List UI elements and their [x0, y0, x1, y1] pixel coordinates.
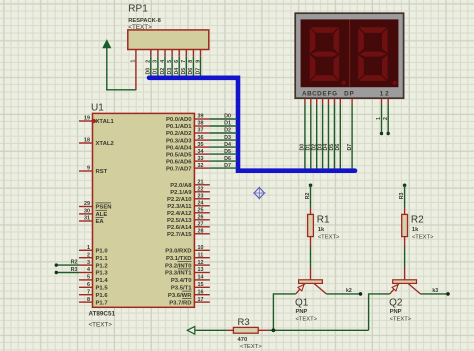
pin 2 (P1.1) stub	[79, 257, 93, 259]
svg-text:4: 4	[160, 60, 166, 63]
segment F (digit 2)	[358, 28, 364, 53]
net label D6 on RP1 pin 8	[188, 68, 194, 75]
svg-text:1k: 1k	[412, 227, 419, 233]
RP1 pin 8 stub	[192, 50, 194, 57]
pin number 37	[198, 128, 204, 134]
svg-text:2: 2	[146, 60, 152, 63]
dangling end dot (net 1)	[380, 132, 383, 135]
net label D5 (P0 wire)	[224, 149, 231, 155]
svg-text:15: 15	[198, 282, 204, 288]
pin 22 (P2.1/A9) stub	[194, 191, 209, 193]
svg-text:14: 14	[198, 275, 204, 281]
svg-text:P1.5: P1.5	[96, 286, 109, 292]
decimal point DP (digit 1)	[342, 81, 346, 85]
pin name P3.0/RXD	[165, 249, 191, 255]
wire P0.4 to bus (net D4)	[210, 146, 237, 148]
pin number 5 (RP1)	[167, 60, 173, 63]
pin 23 (P2.2/A10) stub	[194, 198, 209, 200]
svg-text:P3.5/T1: P3.5/T1	[171, 286, 192, 292]
wire net R2 to pin	[56, 264, 79, 266]
property label <TEXT> (R2)	[412, 234, 434, 240]
resistor R1 body	[308, 214, 314, 236]
svg-text:12: 12	[198, 260, 204, 266]
svg-text:P0.1/AD1: P0.1/AD1	[166, 124, 192, 130]
pin 10 (P3.0/RXD) stub	[194, 249, 209, 251]
pin name P0.4/AD4	[166, 145, 192, 151]
transistor Q1 emitter (arrow)	[296, 284, 305, 294]
pin 7 (P1.6) stub	[79, 294, 93, 296]
wire RP1 pin 7 to bus	[185, 57, 187, 76]
value label PNP (Q1)	[296, 309, 308, 315]
display digit panel	[301, 19, 399, 87]
svg-text:P1.0: P1.0	[96, 249, 109, 255]
pin number 35	[198, 142, 204, 148]
pin 12 (P3.2/INT0) stub	[194, 264, 209, 266]
svg-text:23: 23	[198, 194, 204, 200]
svg-text:P2.2/A10: P2.2/A10	[167, 197, 192, 203]
svg-text:D: D	[317, 91, 322, 98]
svg-text:22: 22	[198, 187, 204, 193]
pin number 30	[84, 209, 90, 215]
svg-text:21: 21	[198, 180, 204, 186]
wire R2 to transistor base	[404, 247, 406, 268]
svg-text:3: 3	[153, 60, 159, 63]
svg-text:P3.4/T0: P3.4/T0	[171, 278, 192, 284]
pin 35 (P0.4/AD4) stub	[194, 146, 209, 148]
pin name PSEN	[96, 203, 112, 211]
pin name P3.4/T0	[171, 278, 192, 284]
dangling end dot (net R2, above R1)	[309, 184, 313, 188]
svg-text:17: 17	[198, 297, 204, 303]
wire display G to bus (net D6)	[339, 105, 341, 169]
net label D4 on RP1 pin 6	[174, 68, 180, 75]
pin name P3.1/TXD	[166, 256, 192, 262]
RP1 pin 5 stub	[171, 50, 173, 57]
svg-text:13: 13	[198, 267, 204, 273]
pin 36 (P0.3/AD3) stub	[194, 139, 209, 141]
svg-text:<TEXT>: <TEXT>	[128, 24, 152, 31]
dangling end dot (net k2)	[359, 292, 363, 296]
svg-text:k3: k3	[432, 288, 438, 294]
svg-text:7: 7	[181, 60, 187, 63]
wire Q2 collector (net k3)	[420, 293, 447, 295]
svg-text:P0.5/AD5: P0.5/AD5	[166, 152, 192, 158]
dangling end dot (net k3)	[446, 292, 450, 296]
pin number 14	[198, 275, 204, 281]
pin number 21	[198, 180, 204, 186]
svg-text:8: 8	[87, 297, 90, 303]
net label D2 (P0 wire)	[224, 128, 231, 134]
svg-text:D3: D3	[167, 68, 173, 75]
dangling end dot (net R2)	[55, 263, 58, 266]
wire R3 to emitters	[268, 329, 368, 331]
pin 28 (P2.7/A15) stub	[194, 233, 209, 235]
pin 16 (P3.6/WR) stub	[194, 294, 209, 296]
svg-text:28: 28	[198, 229, 204, 235]
value label 1k (R2)	[412, 227, 419, 233]
segment B (digit 2)	[382, 28, 388, 53]
svg-text:8: 8	[188, 60, 194, 63]
net label R2	[71, 260, 78, 266]
svg-text:33: 33	[198, 156, 204, 162]
net label R3 (R2 wire)	[399, 192, 405, 199]
RP1 pin 6 stub	[178, 50, 180, 57]
resistor R3 right pin	[258, 329, 268, 331]
value label RESPACK-8	[128, 18, 160, 24]
svg-text:k2: k2	[346, 288, 352, 294]
svg-text:D3: D3	[224, 135, 231, 141]
svg-text:P0.0/AD0: P0.0/AD0	[166, 117, 192, 123]
svg-text:16: 16	[198, 289, 204, 295]
svg-text:1: 1	[87, 245, 90, 251]
pin name P2.3/A11	[167, 204, 192, 210]
segment D (digit 1)	[311, 75, 339, 81]
net label D3 on RP1 pin 5	[167, 68, 173, 75]
pin name P1.5	[96, 286, 109, 292]
svg-text:D1: D1	[224, 121, 231, 127]
RP1 pin 4 stub	[164, 50, 166, 57]
resistor R3 body	[233, 327, 258, 333]
RP1 pin 2 stub	[150, 50, 152, 57]
pin 24 (P2.3/A11) stub	[194, 205, 209, 207]
bus (blue) from RP1 to display	[149, 78, 355, 171]
pin number 26	[198, 215, 204, 221]
net label k2	[346, 288, 352, 294]
segment G (digit 1)	[311, 52, 338, 57]
display pin 1 stub	[381, 98, 383, 104]
svg-text:RP1: RP1	[128, 4, 148, 15]
label RP1	[128, 4, 148, 15]
segment E (digit 2)	[358, 55, 364, 80]
property label <TEXT>	[128, 24, 152, 31]
net label R2 (R1 wire)	[305, 192, 311, 199]
svg-text:D6: D6	[224, 156, 231, 162]
pin number 22	[198, 187, 204, 193]
net label 2 (display common)	[383, 117, 389, 120]
pin number 9	[87, 166, 90, 172]
svg-text:D0: D0	[146, 68, 152, 75]
pin number 25	[198, 208, 204, 214]
wire P0.7 to bus (net D7)	[210, 167, 237, 169]
pin name P2.1/A9	[170, 190, 192, 196]
pin number 34	[198, 149, 204, 155]
net label R3	[71, 267, 78, 273]
wire Q1 emitter	[273, 294, 295, 330]
wire RP1 pin 3 to bus	[157, 57, 159, 76]
pin 4 (P1.3) stub	[79, 272, 93, 274]
pin name P1.6	[96, 293, 109, 299]
RP1 pin 9 stub	[200, 50, 202, 57]
pin 17 (P3.7/RD) stub	[194, 301, 209, 303]
pin number 4 (RP1)	[160, 60, 166, 63]
property label <TEXT> (R1)	[318, 234, 340, 240]
net label D3 (display wire)	[317, 144, 323, 151]
pin name P3.2/INT0	[165, 262, 192, 270]
7-segment display frame	[295, 13, 403, 98]
pin name P1.2	[96, 263, 109, 269]
svg-text:D0: D0	[224, 114, 231, 120]
wire P0.2 to bus (net D2)	[210, 132, 237, 134]
svg-text:P: P	[349, 91, 353, 98]
pin number 10	[198, 245, 204, 251]
net label D2 (display wire)	[311, 144, 317, 151]
pin number 29	[84, 201, 90, 207]
pin name P0.7/AD7	[166, 166, 192, 172]
RP1 pin 7 stub	[185, 50, 187, 57]
pin number 27	[198, 222, 204, 228]
net label 1 (display common)	[376, 117, 382, 120]
pin number 8	[87, 297, 90, 303]
svg-text:D5: D5	[181, 68, 187, 75]
wire RP1 pin 2 to bus	[150, 57, 152, 76]
pin 38 (P0.1/AD1) stub	[194, 125, 209, 127]
pin 34 (P0.5/AD5) stub	[194, 153, 209, 155]
pin 32 (P0.7/AD7) stub	[194, 167, 209, 169]
pin name P3.5/T1	[171, 286, 192, 292]
dangling end dot (net R3, above R2)	[403, 184, 407, 188]
svg-text:2: 2	[87, 252, 90, 258]
svg-text:RST: RST	[96, 169, 108, 175]
svg-text:E: E	[322, 91, 326, 98]
pin 26 (P2.5/A13) stub	[194, 219, 209, 221]
svg-text:7: 7	[87, 289, 90, 295]
wire P0.3 to bus (net D3)	[210, 139, 237, 141]
svg-text:1: 1	[380, 91, 384, 98]
pin number 12	[198, 260, 204, 266]
wire to RP1 pin1	[106, 89, 136, 91]
net label D1 (display wire)	[306, 144, 312, 151]
svg-text:38: 38	[198, 121, 204, 127]
pin number 2 (RP1)	[146, 60, 152, 63]
net label k3	[432, 288, 438, 294]
pin name P1.3	[96, 271, 109, 277]
pin number 1 (RP1)	[131, 60, 137, 63]
svg-text:P2.6/A14: P2.6/A14	[167, 225, 192, 231]
segment G (digit 2)	[359, 52, 386, 57]
label R3	[238, 317, 250, 328]
svg-text:R2: R2	[71, 260, 78, 266]
svg-text:25: 25	[198, 208, 204, 214]
pin number 7	[87, 289, 90, 295]
RP1 pin 3 stub	[157, 50, 159, 57]
svg-text:<TEXT>: <TEXT>	[240, 344, 262, 350]
net label D0 on RP1 pin 2	[146, 68, 152, 75]
pin name P0.1/AD1	[166, 124, 192, 130]
value label AT89C51	[89, 311, 116, 318]
svg-text:P2.7/A15: P2.7/A15	[167, 232, 192, 238]
pin 27 (P2.6/A14) stub	[194, 226, 209, 228]
pin name P0.3/AD3	[166, 138, 192, 144]
svg-text:D: D	[344, 91, 349, 98]
pin 31 (EA) stub	[79, 220, 93, 222]
pin number 38	[198, 121, 204, 127]
svg-text:37: 37	[198, 128, 204, 134]
svg-text:35: 35	[198, 142, 204, 148]
resistor R3 left pin	[226, 329, 233, 331]
label U1	[91, 103, 104, 114]
pin number 1	[87, 245, 90, 251]
display pin DP stub	[351, 98, 353, 104]
display panel divider	[349, 20, 351, 88]
svg-text:D7: D7	[347, 144, 353, 151]
transistor Q2 collector	[408, 284, 420, 294]
display pin legend ABCDEFG DP 1 2	[302, 91, 389, 98]
svg-text:P3.2/INT0: P3.2/INT0	[165, 263, 192, 269]
svg-text:2: 2	[383, 117, 389, 120]
pin 39 (P0.0/AD0) stub	[194, 118, 209, 120]
pin name P0.0/AD0	[166, 117, 192, 123]
wire display DP to bus (net D7)	[351, 105, 353, 169]
svg-text:P1.3: P1.3	[96, 271, 109, 277]
wire R2 top	[404, 185, 406, 207]
net label D1 on RP1 pin 3	[153, 68, 159, 75]
pin number 7 (RP1)	[181, 60, 187, 63]
pin name ALE	[96, 210, 108, 218]
svg-text:26: 26	[198, 215, 204, 221]
svg-text:D6: D6	[188, 68, 194, 75]
wire display D to bus (net D3)	[322, 105, 324, 169]
svg-text:D7: D7	[224, 163, 231, 169]
wire display E to bus (net D4)	[328, 105, 330, 169]
svg-text:9: 9	[87, 166, 90, 172]
pin number 39	[198, 114, 204, 120]
pin 11 (P3.1/TXD) stub	[194, 257, 209, 259]
svg-text:5: 5	[167, 60, 173, 63]
svg-text:P0.2/AD2: P0.2/AD2	[166, 131, 192, 137]
pin name P1.7	[96, 300, 109, 306]
svg-text:24: 24	[198, 201, 204, 207]
svg-text:D7: D7	[195, 68, 201, 75]
wire P0.1 to bus (net D1)	[210, 125, 237, 127]
svg-text:R1: R1	[317, 214, 330, 225]
pin name P0.5/AD5	[166, 152, 192, 158]
XTAL1 input arrow marker	[91, 119, 97, 123]
svg-text:D4: D4	[224, 142, 231, 148]
net label D1 (P0 wire)	[224, 121, 231, 127]
segment A (digit 2)	[359, 27, 387, 33]
svg-text:19: 19	[84, 116, 90, 122]
pin 8 (P1.7) stub	[79, 301, 93, 303]
svg-text:XTAL1: XTAL1	[96, 119, 115, 125]
svg-text:EA: EA	[96, 219, 105, 225]
transistor Q1 collector	[314, 284, 326, 294]
display pin G stub	[339, 98, 341, 104]
svg-text:27: 27	[198, 222, 204, 228]
svg-text:31: 31	[84, 216, 90, 222]
svg-text:G: G	[332, 91, 337, 98]
svg-text:D6: D6	[335, 144, 341, 151]
transistor Q2 base bar	[393, 280, 417, 284]
pin 1 (P1.0) stub	[79, 249, 93, 251]
junction dot (R3 / Q1 emitter)	[272, 328, 276, 332]
svg-text:P3.3/INT1: P3.3/INT1	[165, 271, 192, 277]
label R2	[411, 214, 424, 225]
pin name XTAL1	[96, 119, 115, 125]
pin number 3	[87, 260, 90, 266]
pin 18 (XTAL2) stub	[79, 142, 93, 144]
svg-text:U1: U1	[91, 103, 104, 114]
pin name P2.6/A14	[167, 225, 192, 231]
wire RP1 pin 8 to bus	[192, 57, 194, 76]
svg-text:F: F	[328, 91, 332, 98]
segment E (digit 1)	[310, 55, 316, 80]
decimal point DP (digit 2)	[393, 81, 397, 85]
net label D0 (display wire)	[300, 144, 306, 151]
pin number 6 (RP1)	[174, 60, 180, 63]
svg-text:P3.0/RXD: P3.0/RXD	[165, 249, 191, 255]
property label <TEXT> (Q1)	[296, 317, 318, 323]
pin number 11	[198, 252, 204, 258]
pin number 31	[84, 216, 90, 222]
pin name P3.3/INT1	[165, 269, 192, 277]
wire P0.5 to bus (net D5)	[210, 153, 237, 155]
segment D (digit 2)	[359, 75, 387, 81]
pin number 5	[87, 275, 90, 281]
transistor Q1 base pin	[310, 268, 312, 280]
net label D7 on RP1 pin 9	[195, 68, 201, 75]
pin number 19	[84, 116, 90, 122]
pin name EA	[96, 217, 105, 225]
svg-text:R3: R3	[399, 192, 405, 199]
svg-text:<TEXT>: <TEXT>	[412, 234, 434, 240]
net label D6 (display wire)	[335, 144, 341, 151]
svg-text:<TEXT>: <TEXT>	[89, 322, 113, 329]
svg-text:Q1: Q1	[295, 298, 309, 309]
value label 1k (R1)	[318, 227, 325, 233]
wire R1 top	[310, 185, 312, 207]
pin 33 (P0.6/AD6) stub	[194, 160, 209, 162]
resistor R1 bottom pin	[310, 237, 312, 247]
wire display B to bus (net D1)	[310, 105, 312, 169]
svg-text:P3.6/WR: P3.6/WR	[168, 293, 192, 299]
pin 13 (P3.3/INT1) stub	[194, 272, 209, 274]
wire display pin 2	[387, 105, 389, 133]
svg-text:11: 11	[198, 252, 204, 258]
pin name P2.0/A8	[170, 183, 192, 189]
wire RP1 pin 4 to bus	[164, 57, 166, 76]
pin name XTAL2	[96, 141, 115, 147]
svg-text:470: 470	[238, 337, 248, 343]
pin name P2.5/A13	[167, 218, 192, 224]
pin number 2	[87, 252, 90, 258]
display pin 2 stub	[387, 98, 389, 104]
svg-text:D5: D5	[224, 149, 231, 155]
svg-text:4: 4	[87, 267, 90, 273]
net label D4 (P0 wire)	[224, 142, 231, 148]
wire RP1 pin 9 to bus	[200, 57, 202, 76]
resistor R2 top pin	[404, 208, 406, 215]
property label <TEXT> (R3)	[240, 344, 262, 350]
pin 29 (PSEN) stub	[79, 206, 93, 208]
wire power terminal down	[106, 52, 108, 90]
svg-text:30: 30	[84, 209, 90, 215]
pin number 24	[198, 201, 204, 207]
svg-text:P1.4: P1.4	[96, 278, 109, 284]
svg-text:3: 3	[87, 260, 90, 266]
resistor pack RP1 body	[128, 30, 209, 50]
wire net R3 to pin	[56, 272, 79, 274]
svg-text:2: 2	[385, 91, 389, 98]
transistor Q2 emitter (arrow)	[390, 284, 399, 294]
property label <TEXT> (Q2)	[390, 317, 412, 323]
pin name P2.4/A12	[167, 211, 192, 217]
svg-text:R2: R2	[411, 214, 424, 225]
pin name P1.1	[96, 256, 109, 262]
svg-text:39: 39	[198, 114, 204, 120]
svg-text:P1.6: P1.6	[96, 293, 109, 299]
resistor R2 bottom pin	[404, 237, 406, 247]
svg-text:10: 10	[198, 245, 204, 251]
